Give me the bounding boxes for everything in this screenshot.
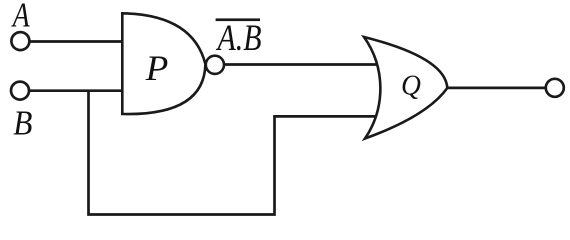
svg-text:Q: Q xyxy=(401,70,421,102)
svg-text:A: A xyxy=(11,0,30,34)
svg-text:P: P xyxy=(145,49,169,88)
svg-text:B: B xyxy=(13,104,32,143)
svg-text:A.B: A.B xyxy=(216,18,262,58)
